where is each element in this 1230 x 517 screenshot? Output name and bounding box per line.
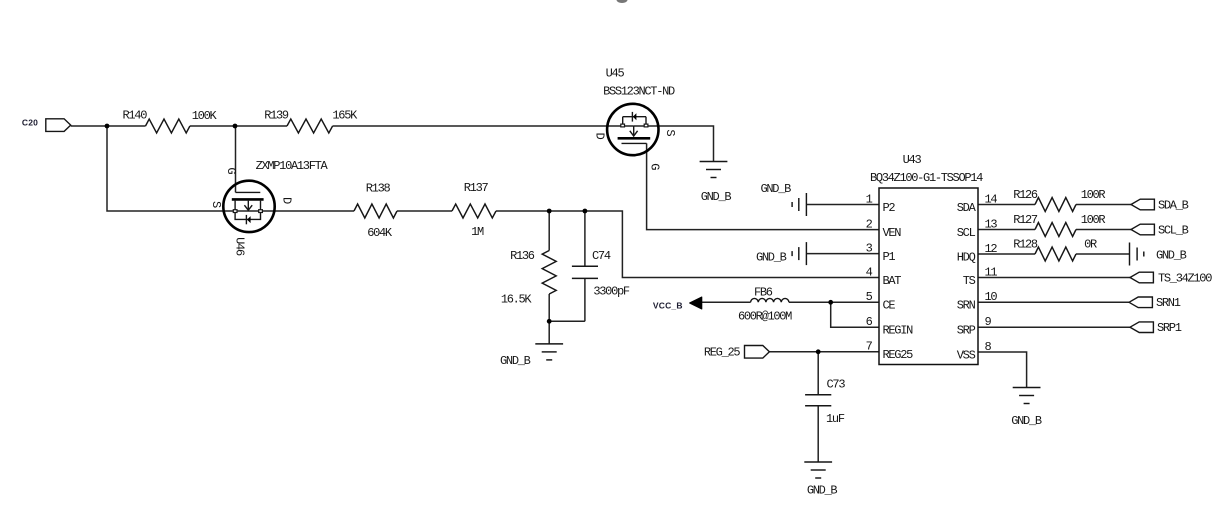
- junction R136 top: [547, 209, 552, 214]
- svg-text:13: 13: [985, 217, 998, 231]
- port flag C20: [46, 119, 71, 132]
- wire SRP pin 9 to flag: [978, 326, 1130, 328]
- svg-text:R137: R137: [464, 181, 489, 195]
- svg-text:100R: 100R: [1081, 188, 1106, 202]
- svg-text:16.5K: 16.5K: [501, 292, 533, 306]
- wire node A to R140: [107, 125, 146, 127]
- svg-text:REG25: REG25: [883, 348, 914, 362]
- port flag SDA_B: [1131, 199, 1154, 210]
- wire HDQ pin 12 to R128: [978, 253, 1035, 255]
- svg-text:GND_B: GND_B: [756, 250, 787, 264]
- resistor R127: [1035, 223, 1076, 237]
- wire R140 to node B: [190, 125, 235, 127]
- svg-text:R127: R127: [1013, 213, 1038, 227]
- svg-text:VCC_B: VCC_B: [653, 301, 683, 311]
- wire U45 source to gnd stem: [634, 126, 714, 162]
- svg-text:U46: U46: [233, 237, 247, 256]
- resistor R138: [354, 204, 397, 218]
- svg-text:11: 11: [985, 265, 998, 279]
- wire VCC_B arrow to FB6: [702, 301, 751, 303]
- svg-text:12: 12: [985, 242, 998, 256]
- svg-text:SCL_B: SCL_B: [1158, 223, 1189, 237]
- resistor R139: [287, 119, 333, 133]
- net arrow VCC_B: [690, 297, 702, 309]
- svg-text:R136: R136: [510, 249, 535, 263]
- wire REG_25 flag to REG25 pin 7: [769, 351, 879, 353]
- ground GND_B (VSS): [1013, 388, 1041, 404]
- ground (sideways) GND_B (HDQ): [1130, 243, 1144, 266]
- svg-text:165K: 165K: [332, 109, 358, 123]
- ground GND_B (R136/C74): [535, 344, 563, 360]
- svg-text:SRN: SRN: [957, 299, 976, 313]
- svg-text:GND_B: GND_B: [500, 354, 531, 368]
- svg-text:SRP1: SRP1: [1157, 321, 1182, 335]
- svg-text:BAT: BAT: [883, 274, 902, 288]
- wire C73 top lead: [817, 352, 819, 395]
- junction node B: [233, 124, 238, 129]
- svg-text:BQ34Z100-G1-TSSOP14: BQ34Z100-G1-TSSOP14: [870, 171, 983, 185]
- svg-text:TS_34Z100: TS_34Z100: [1158, 271, 1212, 285]
- svg-text:SRP: SRP: [957, 324, 976, 338]
- port flag REG_25: [745, 346, 770, 359]
- wire node B to R139: [235, 125, 287, 127]
- resistor R137: [452, 204, 496, 218]
- capacitor C74: [572, 266, 598, 278]
- svg-text:P2: P2: [883, 201, 896, 215]
- svg-text:VSS: VSS: [957, 348, 976, 362]
- wire node B down to U46 gate: [235, 126, 237, 192]
- wire node A down to U46 source: [107, 126, 248, 211]
- svg-text:REG_25: REG_25: [704, 346, 741, 360]
- svg-text:SCL: SCL: [957, 226, 976, 240]
- junction R136/C74 bottom: [547, 319, 552, 324]
- svg-text:GND_B: GND_B: [760, 182, 791, 196]
- svg-text:GND_B: GND_B: [701, 190, 732, 204]
- svg-text:1uF: 1uF: [826, 412, 845, 426]
- wire SCL pin 13 to R127: [978, 229, 1035, 231]
- svg-text:SDA: SDA: [957, 201, 977, 215]
- resistor R128: [1035, 247, 1076, 261]
- svg-text:R138: R138: [366, 182, 391, 196]
- transistor U46 ZXMP10A13FTA: [209, 167, 294, 255]
- wire C20 to node A: [71, 125, 107, 127]
- svg-text:U45: U45: [606, 67, 625, 81]
- junction C74 top: [583, 209, 588, 214]
- svg-text:R139: R139: [264, 109, 289, 123]
- wire FB6 to CE pin 5: [789, 301, 879, 303]
- wire C74 top lead: [584, 211, 586, 266]
- svg-text:0R: 0R: [1084, 238, 1097, 252]
- svg-text:R140: R140: [122, 109, 147, 123]
- wire C74 bottom lead: [584, 278, 586, 321]
- wire U46 drain to R138: [248, 210, 354, 212]
- wire SDA pin 14 to R126: [978, 204, 1035, 206]
- wire R128 to gnd: [1076, 253, 1130, 255]
- ground GND_B (U45 source): [700, 162, 728, 178]
- wire U45 gate to VEN pin 2: [647, 143, 879, 229]
- wire TS pin 11 to flag: [978, 277, 1130, 279]
- wire gnd symbol pin3 to P1: [806, 253, 879, 255]
- ground (sideways) GND_B (pin3): [792, 242, 806, 265]
- capacitor C73: [805, 395, 831, 406]
- cropped text remnant at top: [617, 0, 628, 3]
- svg-text:BSS123NCT-ND: BSS123NCT-ND: [603, 84, 675, 98]
- svg-text:U43: U43: [903, 153, 922, 167]
- svg-text:3300pF: 3300pF: [593, 284, 630, 298]
- svg-text:10: 10: [985, 290, 998, 304]
- junction CE/REGIN node: [828, 300, 833, 305]
- svg-text:100R: 100R: [1081, 213, 1106, 227]
- wire SRN pin 10 to flag: [978, 301, 1129, 303]
- op-amp/IC U43 BQ34Z100-G1-TSSOP14: [879, 188, 978, 365]
- wire R127 to SCL_B flag: [1076, 229, 1131, 231]
- transistor U45 BSS123: [592, 104, 677, 170]
- svg-text:C20: C20: [22, 118, 38, 128]
- svg-text:VEN: VEN: [883, 226, 902, 240]
- port flag TS_34Z100: [1130, 272, 1153, 283]
- svg-text:P1: P1: [883, 250, 896, 264]
- svg-text:SRN1: SRN1: [1156, 296, 1181, 310]
- junction node A: [105, 124, 110, 129]
- port flag SRP1: [1130, 322, 1153, 333]
- svg-text:14: 14: [985, 192, 998, 206]
- svg-text:1M: 1M: [471, 225, 484, 239]
- wire gnd symbol pin1 to P2: [806, 204, 879, 206]
- wire R126 to SDA_B flag: [1076, 204, 1131, 206]
- resistor R136: [542, 251, 556, 295]
- svg-text:600R@100M: 600R@100M: [738, 310, 792, 324]
- svg-text:HDQ: HDQ: [957, 250, 976, 264]
- svg-text:C74: C74: [592, 249, 611, 263]
- ferrite bead FB6: [751, 298, 789, 302]
- wire R136 bottom lead: [548, 294, 550, 321]
- ground (sideways) GND_B (pin1): [792, 193, 806, 216]
- wire bottom node to gnd: [549, 321, 585, 344]
- svg-text:SDA_B: SDA_B: [1158, 198, 1189, 212]
- svg-text:REGIN: REGIN: [883, 324, 914, 338]
- wire CE node down to REGIN pin 6: [831, 302, 879, 327]
- wire VSS pin 8 to gnd: [978, 352, 1027, 388]
- svg-text:CE: CE: [883, 299, 896, 313]
- resistor R126: [1035, 198, 1076, 212]
- wire R139 to U45 drain: [333, 125, 634, 127]
- svg-text:R126: R126: [1013, 188, 1038, 202]
- svg-text:GND_B: GND_B: [807, 483, 838, 497]
- port flag SCL_B: [1131, 224, 1154, 235]
- wire R138 to R137: [397, 210, 452, 212]
- ground GND_B (C73): [804, 462, 832, 478]
- wire R137 to BAT pin 4: [496, 211, 879, 278]
- svg-text:GND_B: GND_B: [1011, 414, 1042, 428]
- svg-text:100K: 100K: [192, 109, 218, 123]
- svg-text:C73: C73: [827, 378, 846, 392]
- wire R136 top lead: [548, 211, 550, 251]
- svg-text:FB6: FB6: [754, 286, 773, 300]
- resistor R140: [146, 119, 190, 133]
- wire C73 bottom lead to gnd: [817, 406, 819, 462]
- svg-text:R128: R128: [1013, 238, 1038, 252]
- port flag SRN1: [1129, 297, 1152, 308]
- svg-text:ZXMP10A13FTA: ZXMP10A13FTA: [256, 159, 329, 173]
- svg-text:TS: TS: [963, 274, 976, 288]
- junction REG25/C73 node: [816, 349, 821, 354]
- svg-text:604K: 604K: [367, 226, 393, 240]
- svg-text:GND_B: GND_B: [1156, 249, 1187, 263]
